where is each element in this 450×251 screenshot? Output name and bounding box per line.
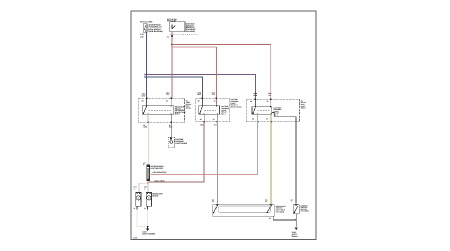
svg-text:C1: C1 xyxy=(167,36,169,39)
svg-text:(RIGHT FENDER): (RIGHT FENDER) xyxy=(142,233,155,236)
svg-text:DASH): DASH) xyxy=(292,235,298,238)
svg-text:86: 86 xyxy=(198,99,200,102)
svg-text:LIGHT RESISTOR: LIGHT RESISTOR xyxy=(150,167,163,170)
svg-text:HOT AT ALL TIMES: HOT AT ALL TIMES xyxy=(140,20,153,23)
svg-text:OR START: OR START xyxy=(167,20,177,23)
svg-text:86: 86 xyxy=(250,100,252,103)
svg-text:YEL: YEL xyxy=(214,123,217,126)
svg-text:LIGHT DIODE: LIGHT DIODE xyxy=(175,142,187,145)
svg-text:30: 30 xyxy=(166,99,168,102)
svg-text:2: 2 xyxy=(144,187,145,190)
svg-text:(RELAY BOX): (RELAY BOX) xyxy=(231,105,242,108)
svg-text:BOX): BOX) xyxy=(175,113,180,116)
svg-text:YEL: YEL xyxy=(166,93,169,96)
svg-text:30: 30 xyxy=(214,99,216,102)
svg-text:(ENG): (ENG) xyxy=(186,107,191,110)
svg-text:1 of 8: 1 of 8 xyxy=(133,237,137,240)
svg-text:13: 13 xyxy=(265,200,267,203)
svg-text:(HIGH): (HIGH) xyxy=(152,194,158,197)
svg-text:OF DASH): OF DASH) xyxy=(276,210,285,213)
svg-text:COLUMN): COLUMN) xyxy=(186,30,195,33)
svg-text:87: 87 xyxy=(266,118,268,121)
svg-text:14: 14 xyxy=(212,200,214,203)
svg-text:87: 87 xyxy=(213,118,215,121)
svg-text:YEL: YEL xyxy=(268,94,271,97)
svg-text:85: 85 xyxy=(252,118,254,121)
svg-text:7: 7 xyxy=(291,200,292,203)
svg-text:SIDE ENGINE): SIDE ENGINE) xyxy=(148,30,163,33)
svg-text:30: 30 xyxy=(267,100,269,103)
svg-text:86: 86 xyxy=(142,99,144,102)
svg-text:YEL: YEL xyxy=(212,93,215,96)
svg-text:COLUMN): COLUMN) xyxy=(301,210,309,213)
svg-text:NO. 1: NO. 1 xyxy=(274,114,278,117)
svg-text:16: 16 xyxy=(269,217,271,220)
svg-text:(ON RADIATOR): (ON RADIATOR) xyxy=(153,171,167,174)
svg-text:2: 2 xyxy=(134,187,135,190)
svg-text:NO. 2: NO. 2 xyxy=(221,112,225,115)
svg-text:S201 RED: S201 RED xyxy=(155,179,166,182)
svg-text:SIDE): SIDE) xyxy=(301,107,306,110)
svg-text:85: 85 xyxy=(200,118,202,121)
svg-text:8: 8 xyxy=(143,163,144,166)
